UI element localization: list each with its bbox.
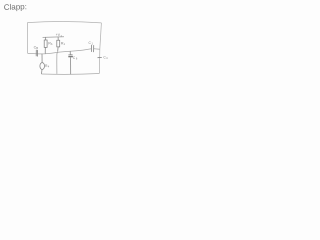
svg-text:+V: +V [56,33,61,37]
+V tick [60,35,62,37]
label C4 [103,56,108,61]
capacitor C4 [98,56,102,58]
wire base line (left edge to C1) [28,49,92,54]
label C6 [73,56,78,61]
capacitor C6 [68,51,73,74]
wire left edge of loop [26,23,28,54]
resistor R4 [40,54,45,74]
label CB [34,45,39,50]
resistor R1 [57,37,60,52]
wire top edge of loop [27,21,101,22]
label R1 [61,41,66,46]
label RB [48,41,53,46]
svg-text:B: B [36,46,38,50]
svg-text:Clapp:: Clapp: [4,2,27,12]
wire bottom rail [41,73,99,76]
capacitor CB [36,50,37,57]
wire emitter drop to bottom rail [57,52,58,74]
wire right edge of loop [99,23,101,74]
capacitor C1 [91,45,93,52]
label C1 [89,41,94,45]
+V supply rail [43,36,64,39]
wire C1 to right edge [94,48,100,51]
title "Clapp:" [4,2,27,12]
label R4 [45,64,50,69]
resistor RB [44,37,47,53]
